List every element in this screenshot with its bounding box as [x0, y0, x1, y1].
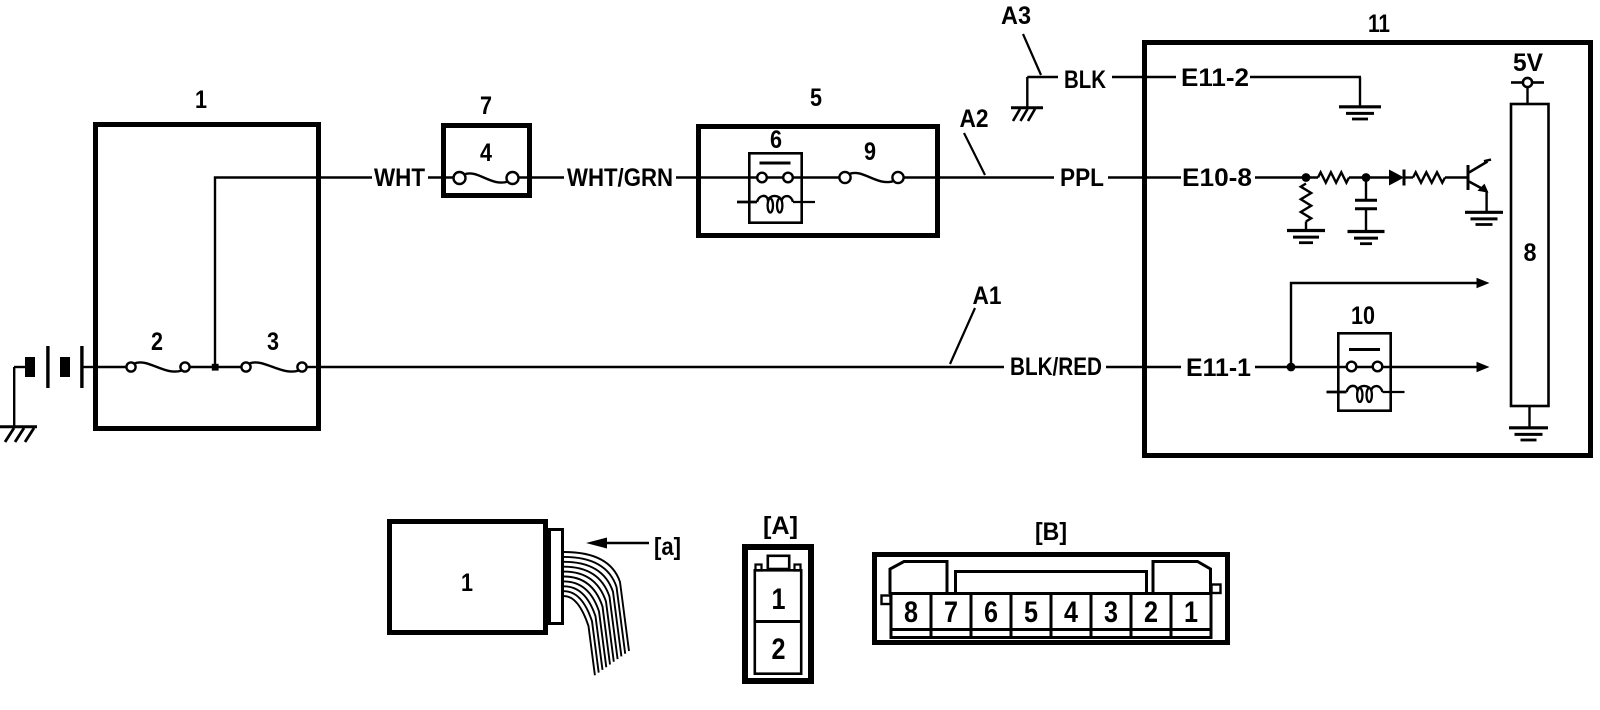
wire WHT/GRN to box 5 and through relay 6 — [676, 176, 840, 178]
wire box 7 to WHT/GRN — [519, 176, 565, 178]
wire E10-8 signal path — [1255, 176, 1318, 178]
wire BLK with L-bend to ground — [1027, 76, 1058, 78]
wire BLK into box 11 — [1112, 76, 1176, 78]
svg-text:3: 3 — [1104, 596, 1118, 629]
pointer line A1 — [950, 308, 975, 364]
svg-text:E10-8: E10-8 — [1182, 164, 1252, 192]
svg-text:WHT: WHT — [374, 164, 425, 192]
wire branch up to box 8 (arrow) — [1291, 283, 1477, 367]
fuse 3 — [241, 362, 250, 371]
fuse 4 — [454, 172, 466, 184]
arrowhead into box 8 (lower) — [1477, 362, 1490, 372]
box 1 (switch unit) — [96, 125, 319, 429]
svg-text:4: 4 — [1064, 596, 1078, 629]
wire harness bundle — [564, 552, 629, 651]
svg-text:2: 2 — [1144, 596, 1158, 629]
ground (internal, box 8) — [1509, 426, 1548, 429]
wire battery positive to box 1 — [83, 366, 96, 368]
fuse 2 — [126, 362, 135, 371]
svg-text:8: 8 — [1524, 239, 1537, 267]
svg-text:E11-1: E11-1 — [1186, 354, 1251, 382]
svg-text:7: 7 — [480, 92, 492, 120]
ground (internal, pull-down) — [1287, 229, 1325, 232]
svg-text:6: 6 — [984, 596, 998, 629]
wire fuse 9 to PPL (net A2) — [904, 176, 1055, 178]
svg-text:[B]: [B] — [1035, 518, 1067, 546]
resistor R (series 1) — [1318, 172, 1349, 182]
svg-text:5: 5 — [1024, 596, 1038, 629]
wire PPL into box 11 — [1108, 176, 1181, 178]
battery — [25, 357, 35, 377]
fuse 9 — [839, 172, 850, 183]
box 11 (ECM) — [1145, 43, 1591, 456]
svg-text:6: 6 — [770, 126, 782, 154]
box 8 (sensor element) — [1511, 104, 1549, 406]
connector B — [875, 555, 1228, 643]
svg-text:A2: A2 — [960, 105, 989, 133]
svg-text:A3: A3 — [1001, 2, 1031, 30]
wire E11-2 to internal ground — [1250, 76, 1361, 78]
connector B cell grid — [891, 592, 1211, 595]
wire battery row inside box 1 — [96, 366, 126, 368]
ground (internal, capacitor) — [1348, 230, 1385, 233]
connector A cell divider — [754, 620, 802, 623]
svg-text:4: 4 — [480, 139, 492, 167]
pointer line A2 — [964, 133, 985, 175]
wire E11-1 to relay 10 — [1255, 366, 1477, 368]
svg-text:1: 1 — [461, 569, 473, 597]
svg-text:[a]: [a] — [654, 533, 681, 561]
ground (battery, chassis) — [0, 425, 37, 428]
svg-text:1: 1 — [195, 86, 207, 114]
connector B side tab left — [882, 596, 891, 605]
svg-text:7: 7 — [944, 596, 958, 629]
connector A corner square right — [795, 565, 801, 571]
svg-text:3: 3 — [267, 328, 279, 356]
ground (internal, transistor emitter) — [1465, 211, 1503, 214]
connector A corner square left — [756, 565, 762, 571]
ground (internal, E11-2) — [1339, 105, 1381, 108]
relay 6 — [749, 153, 801, 222]
junction node in box 1 — [212, 364, 219, 371]
svg-text:E11-2: E11-2 — [1181, 64, 1249, 92]
resistor R (pull-down to ground) — [1301, 184, 1311, 222]
component 1 (unit with harness) — [390, 522, 546, 633]
connector A — [745, 547, 811, 681]
svg-text:5: 5 — [810, 84, 822, 112]
connector B key left (trapezoid) — [890, 562, 947, 595]
connector B key center (rectangle) — [956, 572, 1147, 595]
svg-text:8: 8 — [904, 596, 918, 629]
pointer line A3 — [1023, 34, 1041, 75]
transistor Q (NPN) — [1467, 165, 1470, 190]
connector B key right (trapezoid) — [1153, 562, 1211, 595]
junction node (pull-down resistor) — [1302, 173, 1311, 182]
relay 10 — [1338, 333, 1390, 410]
arrow [a] — [606, 542, 649, 544]
wire 5V to box 8 — [1526, 88, 1528, 106]
wire A1 (BLK/RED) from box 1 to box 11 — [321, 366, 1004, 368]
box 7 (junction block) — [444, 126, 530, 196]
wire battery negative to ground — [14, 366, 26, 368]
svg-text:BLK/RED: BLK/RED — [1010, 353, 1102, 381]
svg-text:1: 1 — [1184, 596, 1198, 629]
svg-text:2: 2 — [151, 328, 163, 356]
ground (A3 / BLK, chassis) — [1011, 106, 1043, 109]
connector A latch tab — [768, 556, 789, 569]
svg-text:A1: A1 — [973, 282, 1002, 310]
box 5 (relay box) — [699, 127, 938, 236]
resistor R (series 2) — [1413, 172, 1445, 182]
connector B side tab right — [1212, 585, 1221, 594]
svg-text:2: 2 — [772, 633, 786, 666]
svg-text:BLK: BLK — [1064, 66, 1106, 94]
diode D — [1389, 170, 1404, 186]
connector tab of component 1 — [550, 530, 563, 624]
wire BLK/RED into box 11 — [1106, 366, 1181, 368]
svg-text:[A]: [A] — [763, 512, 798, 540]
svg-text:11: 11 — [1368, 10, 1390, 38]
wire WHT to box 7 — [428, 176, 454, 178]
svg-text:5V: 5V — [1513, 49, 1543, 77]
junction node (filter capacitor) — [1362, 173, 1371, 182]
junction node E11-1 branch — [1287, 363, 1296, 372]
wire junction up to WHT output — [215, 178, 372, 365]
svg-text:PPL: PPL — [1060, 164, 1104, 192]
wire box 8 to ground — [1528, 406, 1530, 427]
capacitor C (filter) — [1365, 178, 1367, 200]
connector A inner housing — [755, 570, 801, 673]
svg-text:9: 9 — [864, 138, 876, 166]
svg-text:WHT/GRN: WHT/GRN — [567, 164, 673, 192]
svg-text:10: 10 — [1351, 302, 1375, 330]
arrowhead into box 8 (upper) — [1477, 278, 1490, 288]
svg-text:1: 1 — [772, 583, 786, 616]
